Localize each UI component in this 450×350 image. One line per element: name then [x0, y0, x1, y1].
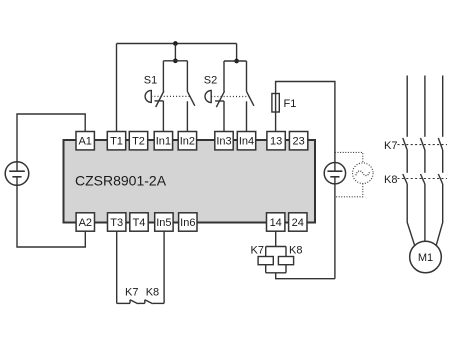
svg-text:24: 24	[292, 217, 304, 229]
node junction on top bus	[173, 41, 178, 46]
contact K8 phase L3	[438, 174, 442, 184]
wire right coil drop	[285, 247, 287, 257]
wire top bus	[117, 43, 237, 45]
svg-text:K8: K8	[289, 244, 302, 256]
svg-text:In2: In2	[180, 136, 195, 148]
wire coils to bottom rail	[276, 273, 335, 279]
motor M1	[410, 241, 442, 273]
contact K7 phase L1	[403, 138, 407, 150]
svg-text:K8: K8	[146, 286, 159, 298]
wire L3 mid	[442, 150, 444, 173]
node junction on S2 bar	[234, 59, 239, 64]
terminal In4	[237, 132, 255, 150]
contact K8 phase L1	[403, 174, 407, 184]
alternative AC source (dashed)	[335, 152, 373, 196]
phase line L1	[406, 76, 408, 137]
terminal T2	[129, 132, 147, 150]
terminal In3	[215, 132, 233, 150]
svg-text:In4: In4	[239, 136, 254, 148]
svg-text:23: 23	[292, 136, 304, 148]
terminal 23	[289, 132, 307, 150]
wire feedback right segment	[153, 302, 164, 304]
svg-text:K8: K8	[384, 174, 397, 186]
fuse F1	[272, 94, 296, 113]
wire coil bottom bar	[266, 272, 286, 274]
terminal T3	[108, 213, 126, 231]
terminal 13	[267, 132, 285, 150]
wire left coil bottom	[265, 265, 267, 273]
wire L3 to motor	[436, 184, 443, 246]
svg-text:A1: A1	[78, 136, 91, 148]
contact K7 NC (feedback)	[125, 286, 138, 303]
terminal T4	[130, 213, 148, 231]
svg-text:S2: S2	[204, 74, 217, 86]
wire 13 through fuse to right source	[276, 82, 335, 172]
switch S1 (emergency stop, 2 NC contacts)	[144, 61, 195, 132]
svg-text:A2: A2	[79, 217, 92, 229]
wire feedback middle segment	[138, 302, 145, 304]
svg-text:In3: In3	[216, 136, 231, 148]
main relay module CZSR8901-2A	[64, 140, 316, 223]
wire In5 drop	[163, 231, 165, 303]
svg-text:T3: T3	[110, 217, 123, 229]
wire left coil drop	[265, 247, 267, 257]
terminal In1	[154, 132, 172, 150]
svg-text:T2: T2	[132, 136, 145, 148]
wire A1 to left DC source	[17, 114, 85, 171]
wire stem to S1	[174, 44, 176, 61]
svg-text:13: 13	[270, 136, 282, 148]
wire L1 to motor	[407, 184, 415, 246]
wire feed to S2	[236, 44, 238, 62]
dc source (right)	[324, 163, 345, 184]
svg-text:M1: M1	[418, 252, 433, 264]
contact K7 phase L2	[421, 138, 425, 150]
wire T1 riser	[116, 44, 118, 132]
wire A2 return to left DC source	[17, 177, 85, 247]
svg-text:CZSR8901-2A: CZSR8901-2A	[75, 173, 167, 189]
svg-text:K7: K7	[125, 286, 138, 298]
dc source G1 (left)	[5, 162, 29, 186]
terminal A2	[76, 213, 94, 231]
wire right coil bottom	[285, 265, 287, 273]
contact K7 phase L3	[438, 138, 442, 150]
phase line L3	[442, 76, 444, 137]
svg-text:In5: In5	[156, 217, 171, 229]
terminal T1	[107, 132, 125, 150]
switch S2 (emergency stop, 2 NC contacts)	[204, 61, 254, 132]
svg-text:K7: K7	[384, 140, 397, 152]
wire L2 to motor	[424, 184, 426, 241]
contact group K7 label and link (motor)	[384, 140, 447, 152]
wire L2 mid	[424, 150, 426, 173]
contactor coil K8	[278, 244, 302, 264]
svg-text:In6: In6	[180, 217, 195, 229]
node junction on S1 bar	[173, 58, 178, 63]
contactor coil K7	[251, 244, 274, 264]
wire coil top bar	[266, 246, 286, 248]
svg-text:S1: S1	[144, 74, 157, 86]
terminal 24	[289, 213, 307, 231]
terminal 14	[267, 213, 285, 231]
terminal In6	[179, 213, 197, 231]
svg-text:T4: T4	[133, 217, 146, 229]
svg-text:T1: T1	[110, 136, 123, 148]
svg-text:14: 14	[270, 217, 282, 229]
contact group K8 label and link (motor)	[384, 174, 447, 186]
terminal In2	[178, 132, 196, 150]
terminal In5	[155, 213, 173, 231]
contact K8 NC (feedback)	[145, 286, 159, 303]
svg-text:K7: K7	[251, 244, 264, 256]
wire 14 to contactor coils	[275, 231, 277, 246]
wire T3 drop	[116, 231, 118, 303]
wire L1 mid	[406, 150, 408, 173]
svg-text:F1: F1	[284, 98, 297, 110]
terminal A1	[76, 132, 94, 150]
wire right source to bottom rail	[334, 177, 336, 279]
wire feedback left segment	[117, 302, 130, 304]
phase line L2	[424, 76, 426, 137]
svg-text:In1: In1	[156, 136, 171, 148]
contact K8 phase L2	[421, 174, 425, 184]
